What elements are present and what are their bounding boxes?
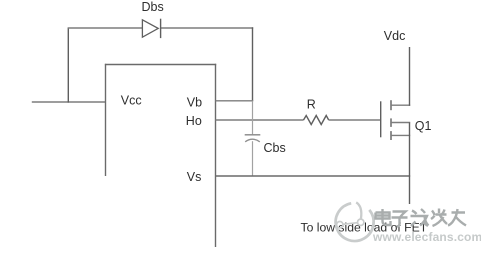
svg-text:R: R [307,97,316,111]
capacitor Cbs [245,135,261,142]
wire: Vdc supply stub to drain [409,47,411,106]
svg-text:Vdc: Vdc [384,29,406,43]
watermark text: 电子发烧友 [376,209,467,227]
svg-text:Cbs: Cbs [264,141,286,155]
wire: bootstrap loop top horizontal (anode side) [68,27,143,29]
wire: Cbs lower lead to Vs rail [252,141,254,176]
wire: bootstrap loop left vertical [67,28,69,103]
wire: Cbs upper lead from Vb node [252,101,254,135]
wire: source down from Vs junction to load [409,123,411,205]
wire: bootstrap loop top horizontal (cathode side) [161,27,254,29]
svg-text:Vb: Vb [187,95,202,109]
wire: bootstrap loop right vertical down to Vb [252,27,254,101]
svg-text:Vcc: Vcc [121,94,142,108]
svg-text:www.elecfans.com: www.elecfans.com [372,230,481,244]
wire: resistor to gate of Q1 [329,119,381,121]
wire: Vs rail [216,175,411,177]
wire: left input horizontal to Vcc [32,101,106,103]
wire: Vb pin to bootstrap loop [216,100,254,102]
wire: Ho pin to resistor [216,119,304,121]
svg-text:Vs: Vs [187,170,202,184]
resistor R [304,116,329,125]
svg-text:Ho: Ho [186,114,202,128]
IC box (driver, bottom edge cropped) [105,64,216,247]
svg-text:Q1: Q1 [415,119,432,133]
transistor Q1 (N-MOSFET) [381,100,411,140]
svg-text:Dbs: Dbs [142,0,164,14]
diode Dbs [142,19,160,38]
watermark logo (elecfans balloon) [336,202,374,241]
